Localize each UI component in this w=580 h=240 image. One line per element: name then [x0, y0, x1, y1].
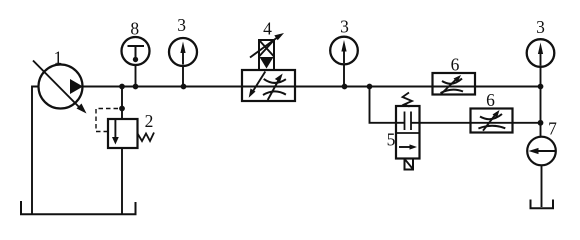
- relief valve pilot (dashed): [96, 109, 119, 132]
- wire: relief valve drain to tank: [121, 148, 123, 214]
- pressure gauge G3b circle: [330, 37, 358, 65]
- wire: main pressure line: [82, 86, 541, 88]
- wire: gauge 3c stem: [540, 67, 542, 87]
- svg-text:6: 6: [451, 55, 460, 75]
- tank (right drain): [531, 200, 554, 209]
- svg-text:3: 3: [536, 17, 545, 37]
- V4 internal arrow (up-right): [268, 78, 280, 101]
- wire: gauge 3b stem: [343, 65, 345, 87]
- svg-text:6: 6: [486, 90, 495, 110]
- thermometer T symbol: [128, 45, 145, 47]
- flow meter arrow: [533, 150, 556, 152]
- proportional arrow: [250, 36, 280, 58]
- junction dot (relief branch): [119, 84, 125, 90]
- throttle valve V6a body: [433, 73, 476, 95]
- svg-text:3: 3: [340, 17, 349, 37]
- junction dot (pilot tap): [119, 106, 125, 112]
- wire: gauge 3a stem: [182, 66, 184, 87]
- pump U1 circle: [39, 65, 83, 109]
- V4 internal arrow (down-left): [252, 72, 266, 94]
- gauge arrow: [540, 51, 542, 66]
- gauge arrow: [343, 49, 345, 64]
- gauge arrow: [182, 50, 184, 65]
- V4 throttle arcs: [264, 79, 286, 83]
- V5 spring: [403, 93, 413, 107]
- svg-text:5: 5: [387, 130, 396, 150]
- tank (left reservoir): [21, 201, 136, 214]
- wire: branch to relief valve: [121, 87, 123, 120]
- relief valve internal arrow: [114, 120, 116, 139]
- svg-text:2: 2: [145, 111, 154, 131]
- wire: gauge 8 stem: [135, 65, 137, 87]
- proportional valve V4 solenoid box: [259, 40, 274, 70]
- wire: flow meter to tank: [541, 165, 543, 207]
- thermometer G8 circle: [122, 37, 150, 65]
- wire: pump suction to tank: [32, 87, 39, 215]
- wire: branch down to valve 5: [370, 87, 397, 123]
- svg-text:3: 3: [177, 15, 186, 35]
- pressure gauge G3a circle: [169, 38, 197, 66]
- svg-text:8: 8: [130, 19, 139, 39]
- relief valve V2 body: [108, 119, 138, 148]
- flow meter F7 circle: [527, 137, 556, 166]
- junction dot (branch to valve 5): [367, 84, 373, 90]
- pump flow triangle: [70, 79, 83, 94]
- pressure relay V5 body: [396, 106, 420, 159]
- proportional valve V4 body: [242, 70, 295, 101]
- throttle valve V6b body: [471, 109, 513, 133]
- wire: right vertical line: [540, 87, 542, 137]
- V5 drain box: [405, 159, 414, 170]
- relief valve spring: [138, 133, 155, 142]
- V5 piston bars: [404, 112, 406, 131]
- pressure gauge G3c circle: [527, 39, 555, 67]
- V5 switch arrow: [399, 146, 412, 148]
- wire: valve 5 to throttle 6b to right line: [411, 122, 541, 124]
- svg-text:7: 7: [548, 119, 557, 139]
- svg-text:1: 1: [54, 48, 63, 68]
- solenoid triangle: [260, 57, 274, 69]
- pump variable-displacement arrow: [33, 61, 82, 111]
- svg-text:4: 4: [263, 19, 272, 39]
